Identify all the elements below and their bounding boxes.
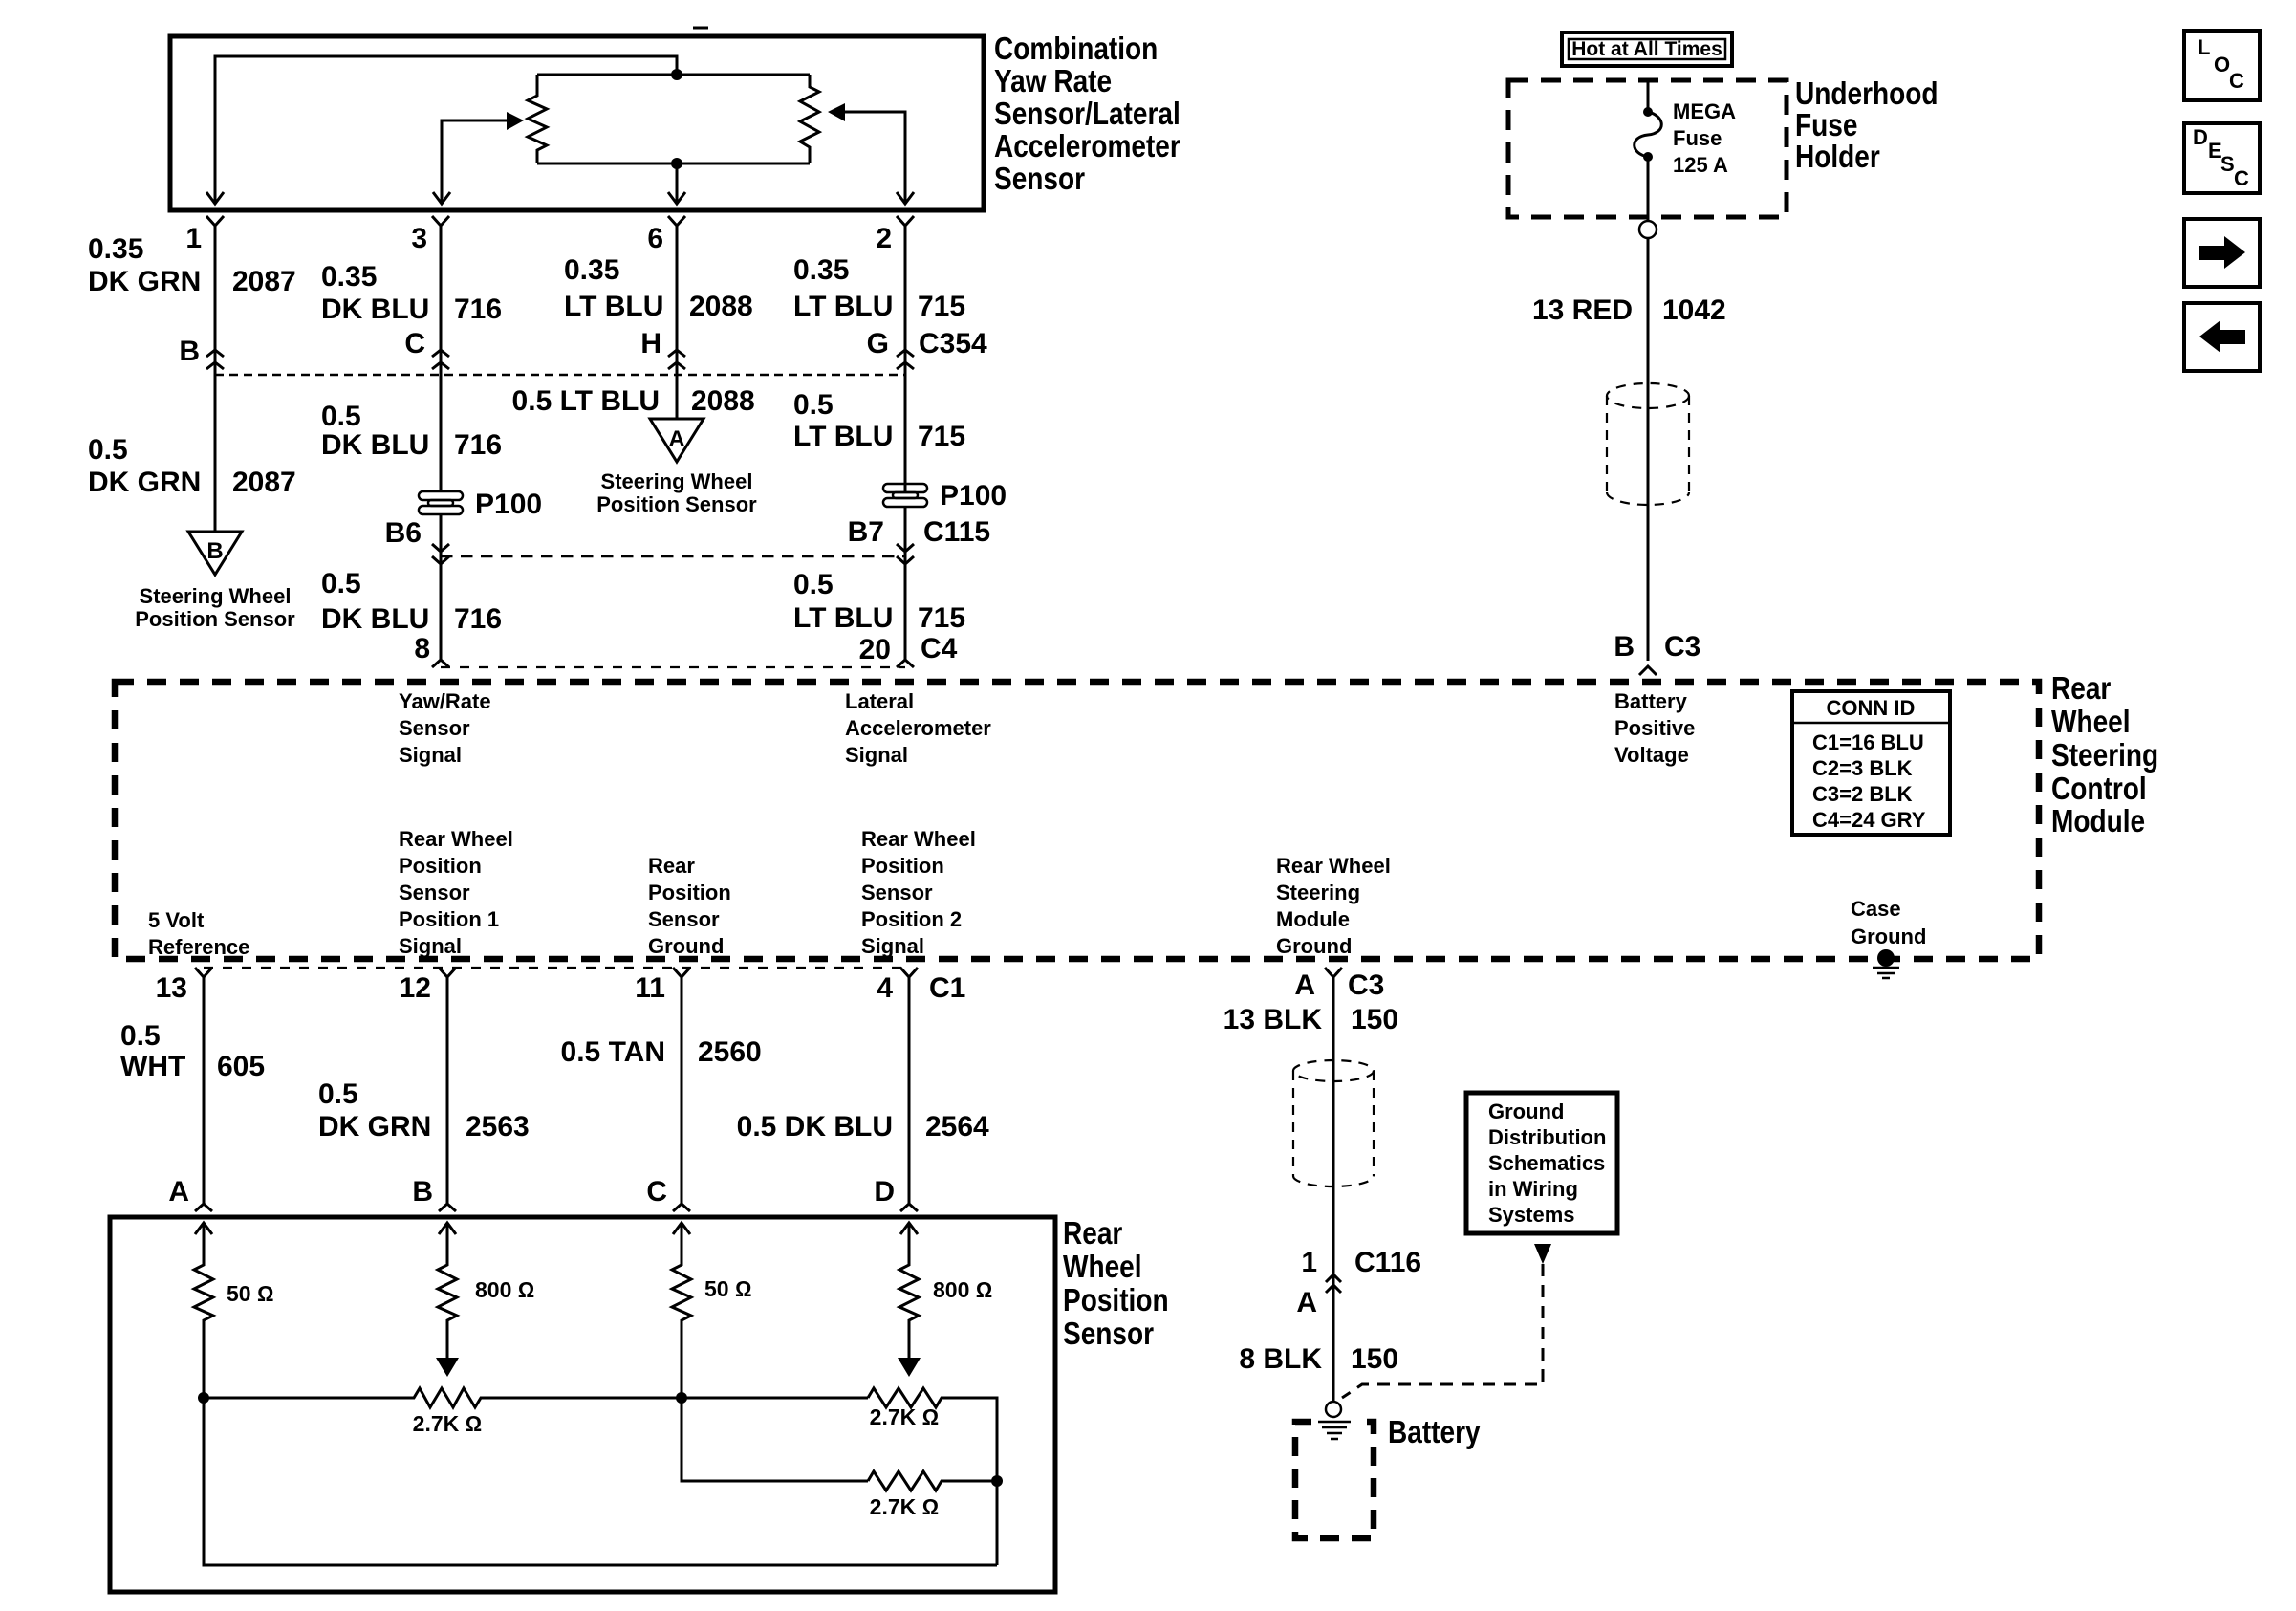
svg-text:C: C bbox=[2234, 166, 2249, 190]
svg-text:Case: Case bbox=[1851, 897, 1901, 921]
svg-text:C354: C354 bbox=[919, 328, 987, 359]
wire 2088 upper bbox=[676, 226, 679, 419]
svg-text:C4=24 GRY: C4=24 GRY bbox=[1812, 808, 1926, 832]
svg-text:C1: C1 bbox=[929, 972, 965, 1004]
svg-text:L: L bbox=[2198, 35, 2210, 59]
svg-text:125 A: 125 A bbox=[1673, 153, 1728, 177]
connector C115 chevrons w2 bbox=[432, 544, 449, 564]
svg-text:P100: P100 bbox=[475, 489, 542, 520]
svg-text:605: 605 bbox=[217, 1051, 265, 1082]
svg-text:150: 150 bbox=[1351, 1343, 1398, 1375]
svg-text:MEGA: MEGA bbox=[1673, 99, 1736, 123]
svg-text:Wheel: Wheel bbox=[1063, 1250, 1142, 1285]
svg-text:Rear Wheel: Rear Wheel bbox=[861, 827, 976, 851]
grommet P100 w4 bbox=[883, 484, 927, 507]
inline harness cylinder fuse wire bbox=[1607, 383, 1689, 505]
svg-text:Ground: Ground bbox=[1276, 934, 1352, 958]
arrowhead pin1 internal bbox=[206, 192, 224, 204]
svg-text:C3: C3 bbox=[1348, 969, 1384, 1001]
svg-text:D: D bbox=[874, 1176, 895, 1208]
hot at all times box bbox=[1562, 33, 1732, 66]
svg-text:2564: 2564 bbox=[925, 1111, 989, 1143]
svg-text:715: 715 bbox=[918, 421, 965, 452]
connector pin 1 bbox=[206, 216, 224, 226]
connector pin 3 bbox=[432, 216, 449, 226]
connector C3 pin A bbox=[1325, 968, 1342, 977]
svg-text:0.35: 0.35 bbox=[564, 254, 619, 286]
svg-text:Module: Module bbox=[1276, 907, 1350, 931]
svg-text:Ground: Ground bbox=[648, 934, 724, 958]
svg-text:8: 8 bbox=[414, 633, 430, 664]
svg-text:Sensor/Lateral: Sensor/Lateral bbox=[994, 97, 1180, 132]
svg-text:DK GRN: DK GRN bbox=[88, 266, 201, 297]
svg-text:C3=2 BLK: C3=2 BLK bbox=[1812, 782, 1913, 806]
svg-text:Signal: Signal bbox=[399, 743, 462, 767]
svg-text:0.5: 0.5 bbox=[793, 569, 834, 600]
svg-text:2088: 2088 bbox=[689, 291, 753, 322]
svg-text:C1=16 BLU: C1=16 BLU bbox=[1812, 730, 1924, 754]
underhood fuse holder dashed box bbox=[1508, 80, 1787, 217]
svg-text:Ground: Ground bbox=[1851, 925, 1926, 948]
svg-text:Battery: Battery bbox=[1388, 1415, 1481, 1450]
connector C1 dashed line bbox=[204, 967, 909, 969]
svg-text:2087: 2087 bbox=[232, 266, 296, 297]
DESC button bbox=[2184, 123, 2260, 193]
wiper arrow D bbox=[898, 1358, 921, 1377]
back arrow button bbox=[2184, 303, 2260, 371]
arrowhead wire A top bbox=[195, 1223, 212, 1234]
svg-text:C: C bbox=[646, 1176, 667, 1208]
resistor 2.7K ohm upper left bbox=[204, 1388, 868, 1407]
resistor 800 ohm D bbox=[899, 1223, 919, 1358]
junction dot A bbox=[198, 1392, 209, 1404]
connector C354 chevrons w4 bbox=[897, 350, 914, 369]
battery ground symbol bbox=[1326, 1402, 1341, 1417]
svg-text:LT BLU: LT BLU bbox=[564, 291, 663, 322]
connector C3 chevron bbox=[1639, 666, 1657, 675]
rear wheel steering control module box bbox=[115, 682, 2039, 959]
connector C354 chevrons w1 bbox=[206, 350, 224, 369]
resistor 2.7K ohm upper right bbox=[868, 1388, 997, 1565]
svg-text:S: S bbox=[2220, 152, 2235, 176]
svg-text:Reference: Reference bbox=[148, 935, 249, 959]
svg-text:Positive: Positive bbox=[1614, 716, 1695, 740]
svg-text:0.35: 0.35 bbox=[793, 254, 849, 286]
svg-text:DK BLU: DK BLU bbox=[321, 603, 429, 635]
connector C1 pin 4 bbox=[900, 968, 918, 1211]
svg-text:Sensor: Sensor bbox=[399, 716, 470, 740]
arrowhead pin6 internal bbox=[668, 192, 685, 204]
svg-text:0.5: 0.5 bbox=[318, 1078, 358, 1110]
svg-text:13 BLK: 13 BLK bbox=[1224, 1004, 1323, 1035]
wire pin3 internal wiper bbox=[442, 120, 509, 203]
mega fuse 125 A bbox=[1643, 107, 1653, 117]
wiper arrow left bbox=[507, 112, 524, 130]
wire 715 upper bbox=[904, 226, 907, 492]
svg-text:0.5 LT BLU: 0.5 LT BLU bbox=[512, 385, 660, 417]
triangle connector B bbox=[188, 532, 242, 575]
wiper arrow right bbox=[828, 103, 845, 121]
svg-text:Position: Position bbox=[399, 854, 482, 878]
connector C354 chevrons w3 bbox=[668, 350, 685, 369]
svg-text:C: C bbox=[404, 328, 425, 359]
svg-text:2.7K Ω: 2.7K Ω bbox=[870, 1494, 940, 1519]
svg-text:0.5: 0.5 bbox=[88, 434, 128, 466]
svg-text:2: 2 bbox=[876, 223, 892, 254]
svg-text:Steering Wheel: Steering Wheel bbox=[601, 469, 753, 493]
svg-text:2560: 2560 bbox=[698, 1036, 762, 1068]
svg-text:2563: 2563 bbox=[466, 1111, 530, 1143]
connector C115 dashed line bbox=[441, 555, 905, 558]
svg-text:2087: 2087 bbox=[232, 467, 296, 498]
svg-text:O: O bbox=[2214, 53, 2230, 76]
svg-text:13 RED: 13 RED bbox=[1532, 294, 1633, 326]
battery dashed box bbox=[1295, 1422, 1374, 1538]
wire pin6 internal bbox=[676, 163, 679, 203]
svg-text:Sensor: Sensor bbox=[648, 907, 720, 931]
connector C1 pin 11 bbox=[673, 968, 690, 1211]
arrowhead wire C top bbox=[673, 1223, 690, 1234]
svg-text:13: 13 bbox=[156, 972, 187, 1004]
ground distribution pointer arrow bbox=[1534, 1244, 1551, 1264]
arrowhead wire D top bbox=[900, 1223, 918, 1234]
svg-text:H: H bbox=[640, 328, 661, 359]
svg-text:0.35: 0.35 bbox=[321, 261, 377, 293]
svg-text:Rear: Rear bbox=[648, 854, 695, 878]
svg-text:Schematics: Schematics bbox=[1488, 1151, 1605, 1175]
junction dot bottom bbox=[671, 158, 682, 169]
junction dot right bbox=[991, 1475, 1003, 1487]
inline harness cylinder ground wire bbox=[1293, 1060, 1374, 1186]
svg-text:Position 1: Position 1 bbox=[399, 907, 499, 931]
svg-text:Signal: Signal bbox=[845, 743, 908, 767]
svg-text:Rear: Rear bbox=[1063, 1216, 1122, 1252]
svg-text:Rear Wheel: Rear Wheel bbox=[1276, 854, 1391, 878]
next arrow button bbox=[2184, 219, 2260, 287]
svg-text:Steering Wheel: Steering Wheel bbox=[140, 584, 292, 608]
svg-text:0.5: 0.5 bbox=[321, 401, 361, 432]
svg-text:Holder: Holder bbox=[1795, 140, 1880, 175]
connector C354 chevrons w2 bbox=[432, 350, 449, 369]
resistor 800 ohm B bbox=[438, 1223, 457, 1358]
svg-text:Sensor: Sensor bbox=[1063, 1317, 1154, 1352]
svg-text:Rear Wheel: Rear Wheel bbox=[399, 827, 513, 851]
wire 716 below grommet bbox=[440, 513, 443, 660]
yaw rate element resistor left bbox=[528, 75, 547, 163]
conn id table bbox=[1792, 691, 1950, 835]
svg-text:Distribution: Distribution bbox=[1488, 1125, 1606, 1149]
svg-text:C2=3 BLK: C2=3 BLK bbox=[1812, 756, 1913, 780]
resistor 2.7K ohm lower bbox=[868, 1471, 997, 1491]
wire pin1 internal bbox=[215, 56, 677, 203]
svg-text:B7: B7 bbox=[848, 516, 884, 548]
connector C116 chevrons bbox=[1326, 1274, 1341, 1293]
svg-text:LT BLU: LT BLU bbox=[793, 602, 893, 634]
lateral accel element resistor right bbox=[800, 75, 819, 163]
svg-text:12: 12 bbox=[400, 972, 431, 1004]
svg-text:715: 715 bbox=[918, 602, 965, 634]
svg-text:Sensor: Sensor bbox=[399, 881, 470, 904]
svg-text:DK GRN: DK GRN bbox=[88, 467, 201, 498]
combination yaw rate sensor box bbox=[170, 36, 984, 210]
svg-text:0.5: 0.5 bbox=[321, 568, 361, 599]
resistor 50 ohm C bbox=[672, 1223, 691, 1398]
svg-text:Steering: Steering bbox=[1276, 881, 1360, 904]
svg-text:in Wiring: in Wiring bbox=[1488, 1177, 1578, 1201]
svg-text:LT BLU: LT BLU bbox=[793, 421, 893, 452]
svg-text:A: A bbox=[668, 426, 684, 452]
svg-text:Sensor: Sensor bbox=[861, 881, 933, 904]
svg-text:716: 716 bbox=[454, 429, 502, 461]
potentiometer body top wire bbox=[537, 74, 810, 76]
connector C1 pin 12 bbox=[439, 968, 456, 1211]
arrowhead pin3 internal bbox=[433, 192, 450, 204]
wire 1042 bbox=[1647, 238, 1650, 661]
svg-text:150: 150 bbox=[1351, 1004, 1398, 1035]
svg-text:B: B bbox=[1614, 631, 1635, 663]
potentiometer body bottom wire bbox=[537, 163, 810, 165]
svg-text:A: A bbox=[1294, 969, 1315, 1001]
svg-text:5 Volt: 5 Volt bbox=[148, 908, 205, 932]
svg-text:Fuse: Fuse bbox=[1795, 108, 1857, 143]
resistor 50 ohm A bbox=[194, 1223, 213, 1398]
svg-text:Accelerometer: Accelerometer bbox=[994, 129, 1180, 164]
svg-text:6: 6 bbox=[647, 223, 663, 254]
svg-text:0.5: 0.5 bbox=[120, 1020, 161, 1052]
ground distribution dashed link bbox=[1342, 1264, 1543, 1398]
svg-text:715: 715 bbox=[918, 291, 965, 322]
wiper arrow B bbox=[436, 1358, 459, 1377]
connector pin 2 bbox=[897, 216, 914, 226]
svg-text:Battery: Battery bbox=[1614, 689, 1688, 713]
svg-text:Signal: Signal bbox=[399, 934, 462, 958]
svg-text:Steering: Steering bbox=[2051, 738, 2158, 773]
svg-text:Control: Control bbox=[2051, 772, 2147, 807]
svg-text:B: B bbox=[412, 1176, 433, 1208]
case ground symbol bbox=[1877, 949, 1895, 967]
svg-text:2.7K Ω: 2.7K Ω bbox=[870, 1404, 940, 1429]
rear wheel position sensor box bbox=[110, 1217, 1055, 1592]
junction dot top bbox=[671, 69, 682, 80]
svg-text:11: 11 bbox=[635, 972, 665, 1004]
svg-text:Underhood: Underhood bbox=[1795, 76, 1939, 112]
svg-text:Accelerometer: Accelerometer bbox=[845, 716, 991, 740]
connector C115 chevrons w4 bbox=[897, 544, 914, 564]
svg-text:DK BLU: DK BLU bbox=[321, 294, 429, 325]
wire pin2 internal wiper bbox=[845, 112, 905, 203]
svg-text:716: 716 bbox=[454, 603, 502, 635]
svg-text:WHT: WHT bbox=[120, 1051, 185, 1082]
svg-text:A: A bbox=[168, 1176, 189, 1208]
svg-text:Rear: Rear bbox=[2051, 671, 2111, 707]
svg-text:B: B bbox=[206, 538, 223, 564]
arrowhead wire B top bbox=[439, 1223, 456, 1234]
connector C4 chevron w2 bbox=[432, 660, 449, 667]
svg-text:Signal: Signal bbox=[861, 934, 924, 958]
svg-text:C: C bbox=[2229, 69, 2244, 93]
svg-text:A: A bbox=[1296, 1287, 1317, 1318]
wire below fuse bbox=[1647, 157, 1650, 221]
svg-text:0.5: 0.5 bbox=[793, 389, 834, 421]
arrowhead pin2 internal bbox=[897, 192, 914, 204]
svg-text:Position: Position bbox=[1063, 1283, 1169, 1318]
LOC button bbox=[2184, 31, 2260, 100]
grommet P100 w2 bbox=[419, 491, 463, 514]
svg-text:Position 2: Position 2 bbox=[861, 907, 962, 931]
svg-text:3: 3 bbox=[411, 223, 427, 254]
svg-text:P100: P100 bbox=[940, 480, 1007, 512]
svg-text:50 Ω: 50 Ω bbox=[704, 1276, 752, 1301]
svg-text:C116: C116 bbox=[1354, 1247, 1421, 1278]
ground distribution box bbox=[1466, 1093, 1617, 1233]
svg-text:LT BLU: LT BLU bbox=[793, 291, 893, 322]
wire A down and bottom run bbox=[204, 1398, 997, 1565]
wire into fuse bbox=[1647, 80, 1650, 112]
wire 716 upper bbox=[440, 226, 443, 492]
svg-text:C3: C3 bbox=[1664, 631, 1700, 663]
svg-text:B6: B6 bbox=[385, 517, 422, 549]
svg-text:4: 4 bbox=[877, 972, 893, 1004]
svg-text:716: 716 bbox=[454, 294, 502, 325]
wire 2087 upper bbox=[214, 226, 217, 532]
ground wire from module bbox=[1332, 976, 1335, 1402]
svg-text:Fuse: Fuse bbox=[1673, 126, 1722, 150]
svg-text:Combination: Combination bbox=[994, 32, 1158, 67]
svg-text:Voltage: Voltage bbox=[1614, 743, 1689, 767]
svg-text:D: D bbox=[2193, 125, 2208, 149]
svg-text:0.35: 0.35 bbox=[88, 233, 143, 265]
svg-text:G: G bbox=[867, 328, 889, 359]
svg-text:800 Ω: 800 Ω bbox=[475, 1277, 534, 1302]
connector pin 6 bbox=[668, 216, 685, 226]
wire 715 below grommet bbox=[904, 507, 907, 660]
svg-text:C115: C115 bbox=[923, 516, 990, 548]
svg-text:800 Ω: 800 Ω bbox=[933, 1277, 992, 1302]
svg-text:Position Sensor: Position Sensor bbox=[596, 492, 757, 516]
junction dot C bbox=[676, 1392, 687, 1404]
svg-text:1: 1 bbox=[1301, 1247, 1317, 1278]
svg-text:2.7K Ω: 2.7K Ω bbox=[413, 1411, 483, 1436]
connector C4 dashed line bbox=[441, 666, 905, 668]
stray tick mark bbox=[693, 27, 708, 30]
svg-text:Lateral: Lateral bbox=[845, 689, 914, 713]
connector C1 pin 13 bbox=[195, 968, 212, 1211]
svg-text:CONN ID: CONN ID bbox=[1827, 696, 1916, 720]
svg-text:50 Ω: 50 Ω bbox=[227, 1281, 274, 1306]
connector ring bbox=[1639, 221, 1657, 238]
svg-text:8 BLK: 8 BLK bbox=[1239, 1343, 1322, 1375]
svg-text:Systems: Systems bbox=[1488, 1203, 1575, 1227]
svg-text:Position Sensor: Position Sensor bbox=[135, 607, 295, 631]
svg-text:B: B bbox=[179, 336, 200, 367]
svg-text:0.5 DK BLU: 0.5 DK BLU bbox=[737, 1111, 893, 1143]
svg-text:20: 20 bbox=[859, 634, 891, 665]
svg-text:Module: Module bbox=[2051, 804, 2145, 839]
svg-text:Yaw/Rate: Yaw/Rate bbox=[399, 689, 491, 713]
svg-text:2088: 2088 bbox=[691, 385, 755, 417]
triangle connector A bbox=[650, 419, 704, 462]
svg-text:Sensor: Sensor bbox=[994, 162, 1085, 197]
svg-text:DK GRN: DK GRN bbox=[318, 1111, 431, 1143]
svg-text:1042: 1042 bbox=[1662, 294, 1726, 326]
svg-text:0.5 TAN: 0.5 TAN bbox=[561, 1036, 665, 1068]
svg-text:DK BLU: DK BLU bbox=[321, 429, 429, 461]
svg-text:1: 1 bbox=[185, 223, 202, 254]
svg-text:Yaw Rate: Yaw Rate bbox=[994, 64, 1112, 99]
svg-text:C4: C4 bbox=[921, 633, 958, 664]
svg-text:Position: Position bbox=[648, 881, 731, 904]
svg-text:Position: Position bbox=[861, 854, 944, 878]
svg-text:Hot at All Times: Hot at All Times bbox=[1571, 38, 1722, 60]
svg-text:Ground: Ground bbox=[1488, 1099, 1564, 1123]
wire C down to lower branch bbox=[682, 1398, 868, 1481]
connector C4 chevron w4 bbox=[897, 660, 914, 667]
svg-text:Wheel: Wheel bbox=[2051, 705, 2131, 740]
connector C354 dashed line bbox=[215, 374, 905, 377]
